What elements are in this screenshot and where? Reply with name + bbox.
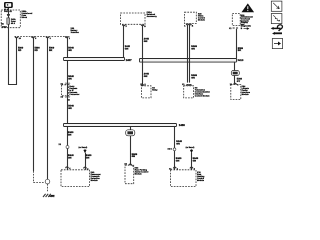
svg-text:(m Band): (m Band)	[186, 146, 195, 149]
wire fuse bottom lead + U loop	[9, 24, 17, 84]
svg-text:Module: Module	[91, 179, 99, 182]
bus bar 2	[140, 59, 237, 63]
legend icon 2	[271, 14, 282, 24]
svg-text:(m Band): (m Band)	[79, 146, 88, 149]
connector row dashed line	[15, 36, 70, 38]
svg-text:GN: GN	[132, 155, 136, 158]
connector pin 3	[46, 36, 49, 37]
double wire	[187, 25, 189, 83]
fuse F4DL	[7, 18, 10, 24]
svg-text:GY: GY	[237, 80, 241, 83]
svg-text:Block: Block	[22, 16, 28, 19]
source arrow R	[190, 149, 193, 153]
module R box	[171, 170, 197, 187]
wire arrow R down	[191, 153, 193, 170]
display box	[232, 14, 240, 26]
splice pack	[231, 71, 239, 76]
legend icon 4 arrow	[272, 39, 282, 49]
wire dashed to ground	[34, 171, 45, 183]
svg-text:GN: GN	[191, 48, 195, 51]
source arrow L	[84, 149, 87, 153]
connector pin 5	[32, 36, 35, 37]
svg-text:Accessory: Accessory	[147, 15, 158, 18]
svg-text:RD: RD	[35, 49, 39, 52]
svg-text:GN: GN	[68, 77, 72, 80]
svg-text:GN: GN	[176, 159, 180, 162]
svg-text:X50A: X50A	[2, 25, 8, 28]
ground G302	[43, 194, 51, 197]
wire GN 5G40 main	[67, 38, 69, 170]
module R2 box	[184, 86, 194, 98]
svg-text:Diagnostic: Diagnostic	[241, 25, 252, 28]
wire arrow L down	[85, 153, 87, 170]
svg-text:1458: 1458	[179, 124, 185, 127]
svg-text:GN: GN	[86, 156, 90, 159]
svg-text:RD: RD	[18, 49, 22, 52]
inline connector X400	[126, 130, 135, 136]
module TR box	[231, 85, 241, 100]
legend icon 3 twisted arrows	[271, 25, 283, 35]
A/C box	[185, 12, 197, 23]
svg-text:GN: GN	[144, 75, 148, 78]
svg-text:Relay: Relay	[152, 89, 158, 92]
svg-text:GN: GN	[68, 49, 72, 52]
pin at box L	[66, 167, 69, 168]
svg-text:GN: GN	[176, 142, 180, 145]
legend icon 1	[271, 1, 282, 11]
ground lead	[47, 184, 49, 192]
svg-text:Junction: Junction	[71, 31, 80, 34]
relay pin 1	[123, 24, 126, 25]
svg-text:Module: Module	[242, 93, 250, 96]
bus bar 3	[64, 124, 177, 127]
svg-text:GN: GN	[193, 159, 197, 162]
svg-text:Control Module: Control Module	[195, 94, 211, 97]
svg-text:Module: Module	[197, 179, 205, 182]
caution triangle	[242, 3, 255, 12]
svg-text:GN: GN	[68, 107, 72, 110]
svg-text:X2 D: X2 D	[168, 147, 173, 150]
wire RD 5290	[33, 38, 35, 171]
module M box	[125, 165, 134, 184]
wire fuse top lead	[8, 8, 10, 18]
svg-text:GN: GN	[144, 40, 148, 43]
svg-text:GN: GN	[68, 156, 72, 159]
module L2 box	[142, 86, 152, 98]
svg-text:Module: Module	[135, 172, 143, 175]
wire relay2 down	[142, 26, 144, 86]
wire	[234, 76, 236, 85]
relay pin 2	[141, 24, 144, 25]
module L box	[61, 170, 90, 187]
wire display to bus2	[236, 29, 238, 59]
svg-text:Connector: Connector	[69, 93, 79, 96]
wire bus3 to module M	[130, 127, 132, 166]
svg-text:GN: GN	[68, 133, 72, 136]
svg-text:X410: X410	[238, 59, 244, 62]
svg-text:1407: 1407	[126, 59, 132, 62]
svg-text:BK: BK	[49, 49, 53, 52]
svg-text:GN: GN	[125, 47, 129, 50]
svg-text:BK: BK	[238, 49, 242, 52]
wire relay1 to bus1	[123, 26, 125, 58]
pin at box L right	[84, 167, 87, 168]
wire bus3 end to module R	[174, 127, 176, 170]
svg-text:40 A: 40 A	[11, 22, 16, 25]
wire BK 5309	[47, 38, 49, 180]
A/C pins	[186, 24, 188, 25]
relay box K	[121, 13, 146, 24]
wire below bus2	[234, 62, 236, 71]
svg-text:GN: GN	[191, 76, 195, 79]
ground ring terminal	[45, 179, 50, 184]
fusible element hook	[7, 14, 10, 17]
bus bar 1	[64, 58, 125, 61]
connector pin 10	[15, 36, 18, 37]
connector pin 1	[65, 36, 68, 37]
fuse block icon	[4, 2, 13, 8]
svg-text:Module: Module	[198, 18, 206, 21]
underhood fuse block box X50A	[1, 10, 20, 28]
